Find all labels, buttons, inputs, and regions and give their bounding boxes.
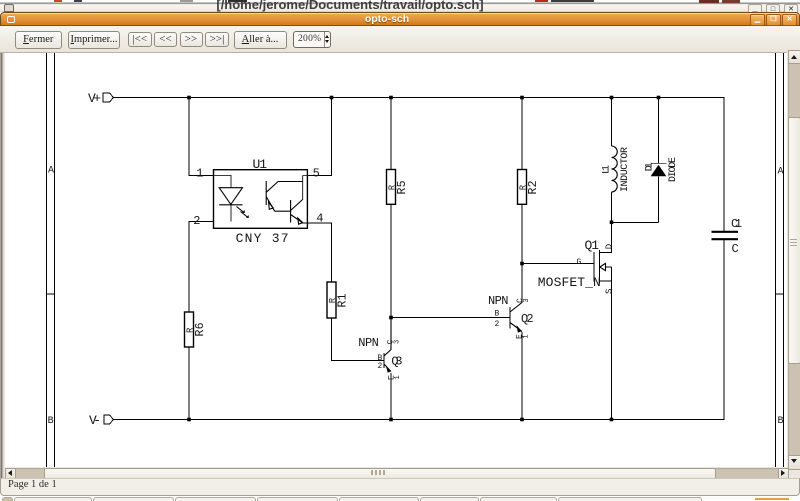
svg-text:2: 2 [378,362,383,371]
svg-text:Q1: Q1 [585,238,600,253]
svg-text:A: A [48,166,54,177]
svg-text:B: B [495,310,500,319]
svg-text:A: A [778,167,784,178]
svg-text:R1: R1 [337,293,350,307]
svg-text:V+: V+ [88,91,101,106]
svg-text:B: B [778,416,784,427]
svg-text:R: R [388,184,398,190]
svg-text:INDUCTOR: INDUCTOR [620,147,631,192]
svg-text:V-: V- [89,413,101,428]
svg-text:R: R [328,297,338,303]
svg-text:C: C [732,242,739,256]
svg-text:S: S [605,289,615,294]
svg-text:1: 1 [196,166,203,180]
svg-text:L1: L1 [601,165,612,174]
svg-text:2: 2 [495,320,500,329]
svg-text:R6: R6 [194,322,207,336]
svg-text:C1: C1 [731,217,742,231]
svg-text:2: 2 [193,214,200,228]
svg-text:R2: R2 [527,180,540,194]
svg-text:1: 1 [522,334,530,338]
svg-text:D: D [605,244,615,249]
svg-text:4: 4 [316,212,323,226]
svg-text:MOSFET_N: MOSFET_N [538,275,601,290]
svg-text:R: R [186,327,196,333]
svg-text:NPN: NPN [358,336,379,350]
svg-text:R5: R5 [396,180,409,194]
svg-text:3: 3 [393,340,401,344]
svg-text:D1: D1 [644,162,655,171]
svg-text:B: B [48,416,54,427]
svg-text:CNY 37: CNY 37 [236,231,289,246]
svg-text:1: 1 [394,375,402,379]
svg-text:U1: U1 [253,157,268,172]
svg-text:Q2: Q2 [521,312,534,326]
svg-text:G: G [577,258,582,267]
svg-text:Q3: Q3 [391,354,402,368]
svg-text:5: 5 [313,166,320,180]
svg-text:3: 3 [523,298,531,302]
svg-text:NPN: NPN [488,294,509,308]
svg-text:DIODE: DIODE [668,157,679,182]
svg-text:R: R [519,184,529,190]
